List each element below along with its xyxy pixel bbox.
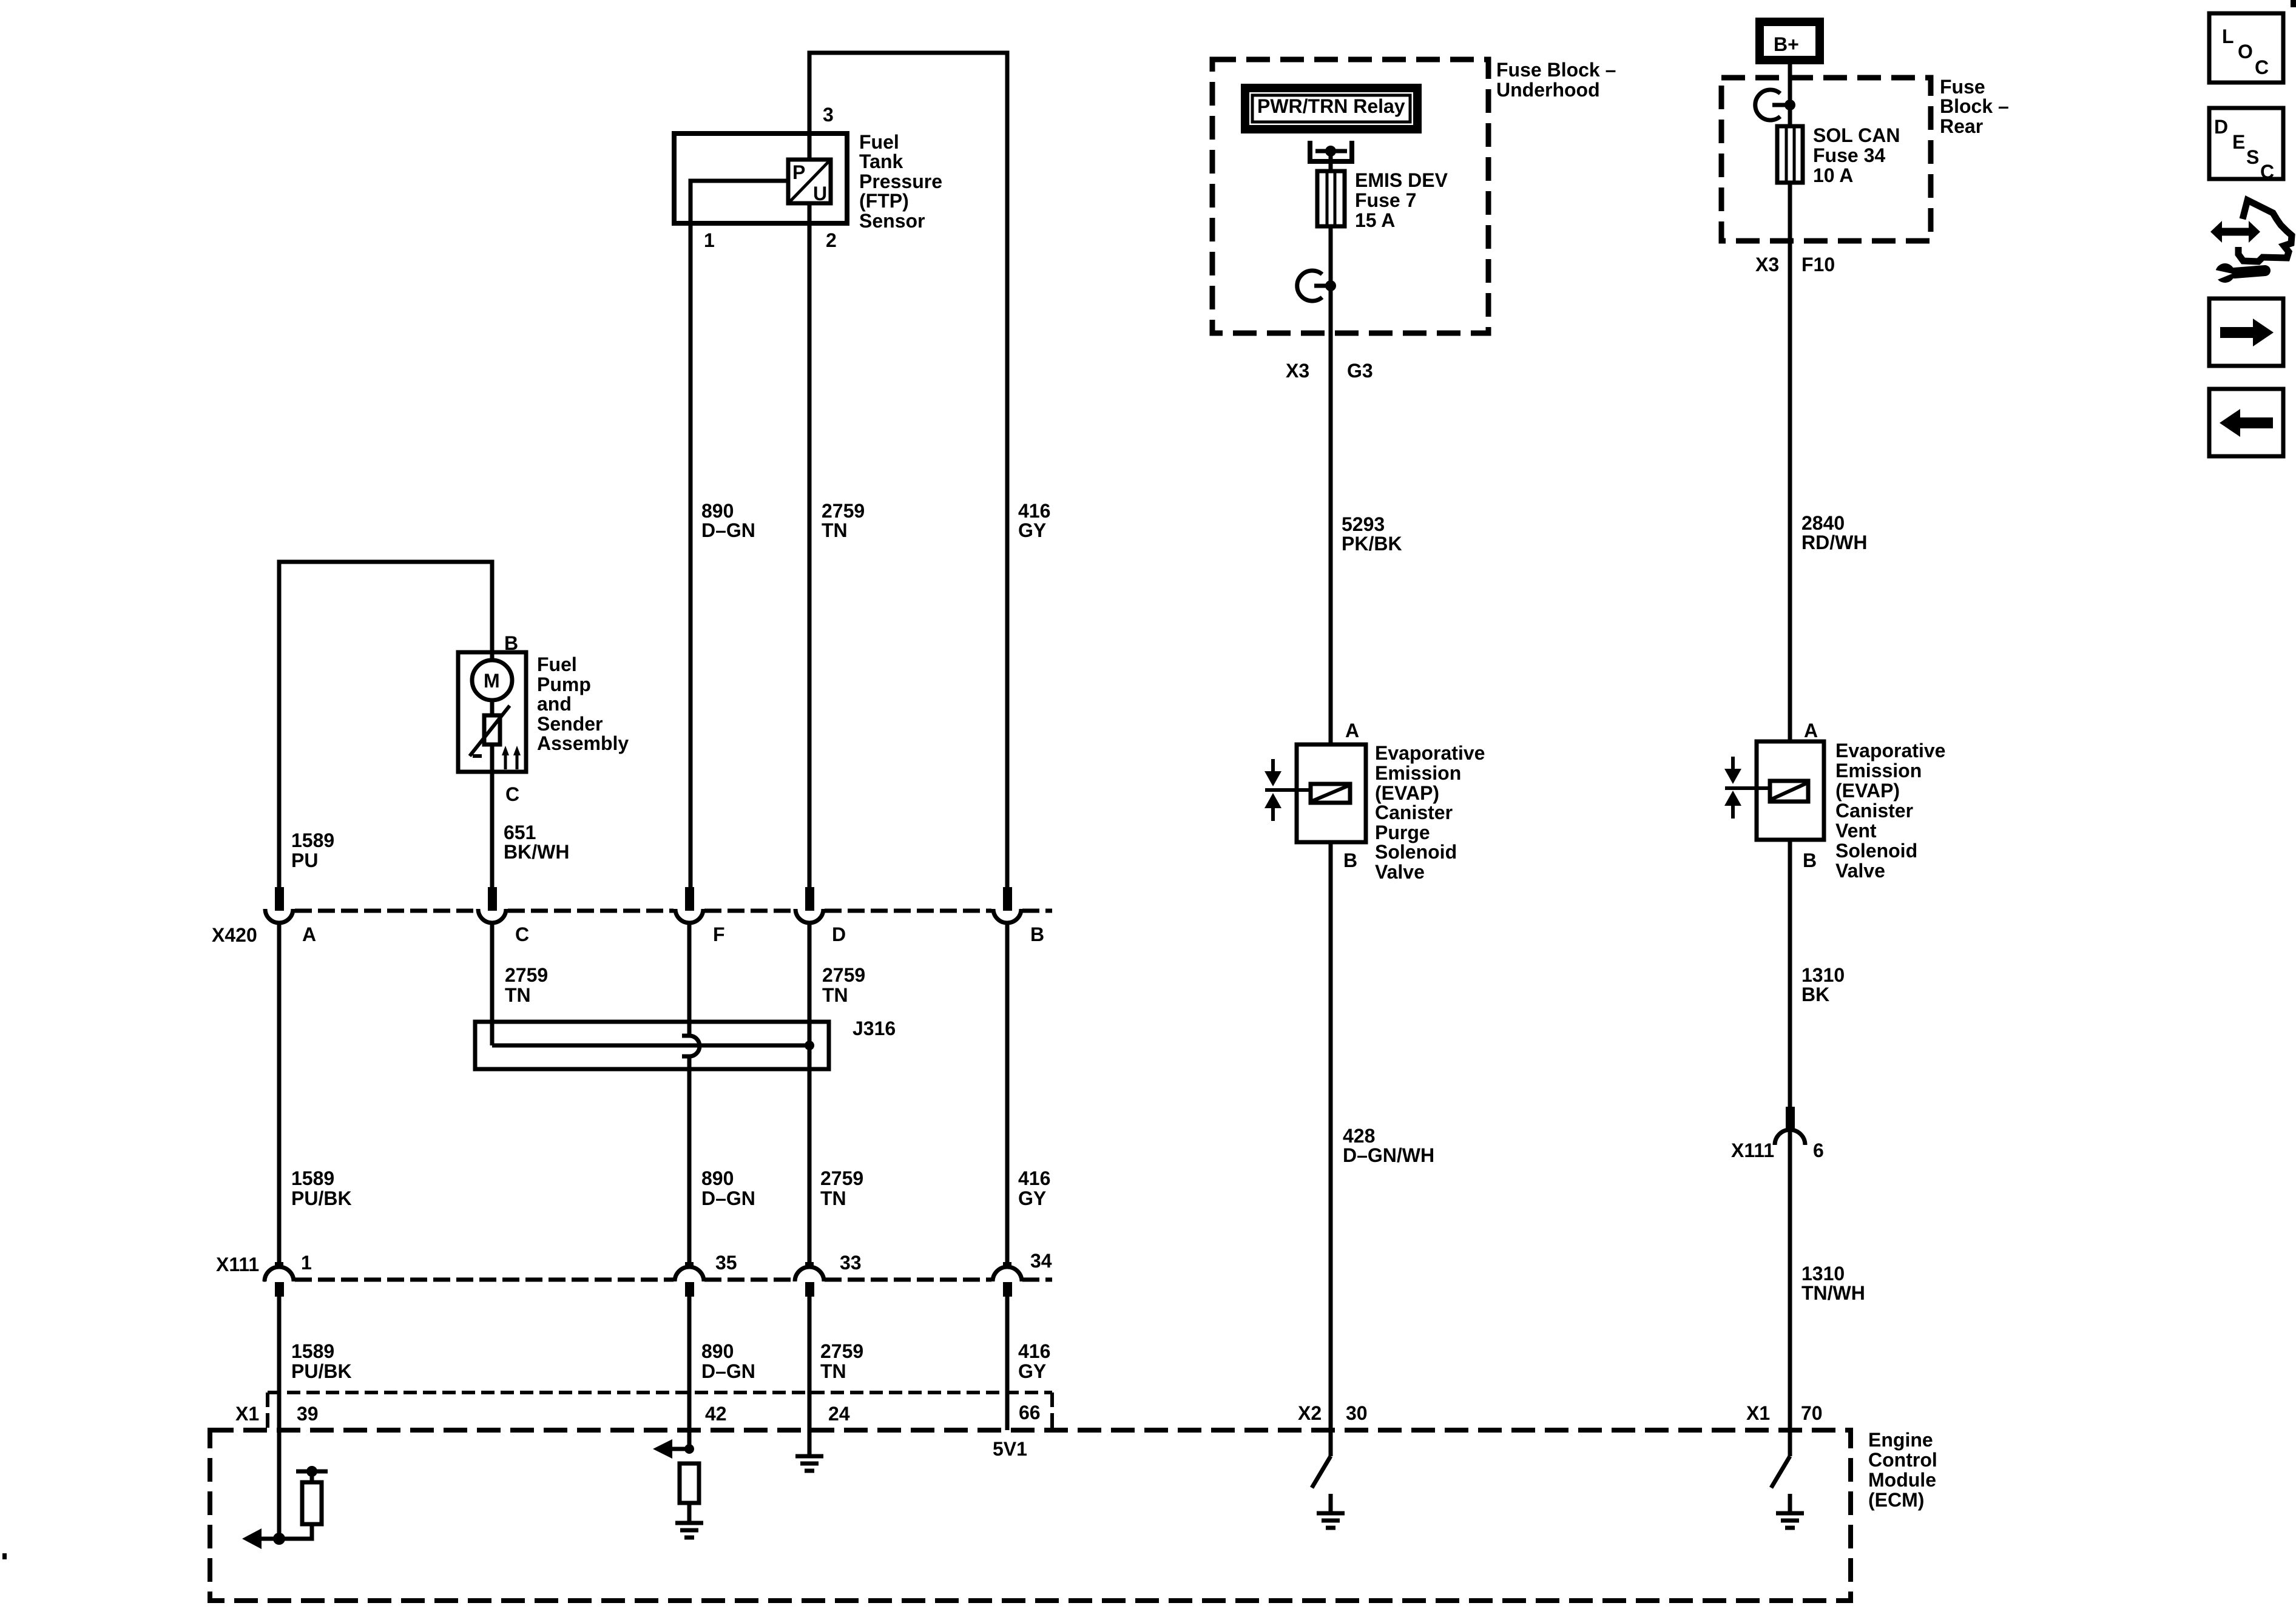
svg-text:Evaporative: Evaporative xyxy=(1835,740,1945,761)
svg-text:Fuse 34: Fuse 34 xyxy=(1813,144,1885,166)
svg-text:X2: X2 xyxy=(1298,1402,1322,1424)
svg-text:Fuel: Fuel xyxy=(859,131,899,153)
svg-text:Sender: Sender xyxy=(537,713,603,735)
svg-text:Canister: Canister xyxy=(1835,800,1913,822)
svg-text:39: 39 xyxy=(297,1403,319,1425)
svg-text:35: 35 xyxy=(715,1252,737,1274)
svg-text:1: 1 xyxy=(301,1252,312,1274)
svg-text:416: 416 xyxy=(1018,1167,1050,1189)
svg-text:Valve: Valve xyxy=(1835,860,1885,882)
svg-text:TN/WH: TN/WH xyxy=(1801,1282,1865,1304)
svg-text:RD/WH: RD/WH xyxy=(1801,532,1867,553)
svg-text:1589: 1589 xyxy=(291,1167,334,1189)
svg-text:EMIS DEV: EMIS DEV xyxy=(1355,169,1448,191)
svg-text:J316: J316 xyxy=(853,1018,896,1039)
svg-text:C: C xyxy=(2255,56,2269,78)
svg-text:BK/WH: BK/WH xyxy=(504,841,569,863)
svg-text:B: B xyxy=(504,632,518,654)
svg-text:428: 428 xyxy=(1343,1125,1375,1147)
svg-text:PK/BK: PK/BK xyxy=(1342,533,1402,555)
svg-text:C: C xyxy=(515,923,529,945)
svg-text:Engine: Engine xyxy=(1868,1429,1933,1451)
svg-text:(EVAP): (EVAP) xyxy=(1375,782,1439,804)
svg-text:2759: 2759 xyxy=(822,500,865,522)
svg-text:Solenoid: Solenoid xyxy=(1375,841,1457,863)
svg-text:Underhood: Underhood xyxy=(1496,79,1600,101)
svg-text:5V1: 5V1 xyxy=(993,1438,1027,1460)
svg-text:BK: BK xyxy=(1801,984,1829,1005)
svg-text:X3: X3 xyxy=(1286,360,1309,382)
svg-text:Emission: Emission xyxy=(1835,760,1922,781)
svg-text:GY: GY xyxy=(1018,1360,1046,1382)
svg-text:TN: TN xyxy=(505,984,531,1006)
svg-text:3: 3 xyxy=(823,104,834,126)
svg-text:X111: X111 xyxy=(216,1254,259,1275)
svg-text:Solenoid: Solenoid xyxy=(1835,840,1917,862)
svg-text:PWR/TRN Relay: PWR/TRN Relay xyxy=(1257,95,1405,117)
svg-text:D: D xyxy=(832,923,846,945)
svg-text:GY: GY xyxy=(1018,1187,1046,1209)
svg-text:416: 416 xyxy=(1018,500,1050,522)
svg-text:651: 651 xyxy=(504,822,536,843)
svg-text:D–GN: D–GN xyxy=(701,1360,755,1382)
svg-text:B: B xyxy=(1030,923,1044,945)
svg-text:Assembly: Assembly xyxy=(537,732,629,754)
svg-text:24: 24 xyxy=(828,1403,850,1425)
svg-text:Fuel: Fuel xyxy=(537,653,577,675)
svg-text:1310: 1310 xyxy=(1801,1263,1845,1284)
svg-text:X3: X3 xyxy=(1755,254,1779,275)
svg-text:1589: 1589 xyxy=(291,829,334,851)
svg-text:B: B xyxy=(1343,849,1357,871)
svg-text:X420: X420 xyxy=(212,924,257,946)
svg-text:6: 6 xyxy=(1813,1139,1824,1161)
svg-text:D–GN/WH: D–GN/WH xyxy=(1343,1144,1434,1166)
svg-text:Rear: Rear xyxy=(1940,115,1983,137)
svg-text:66: 66 xyxy=(1019,1402,1041,1423)
svg-text:D–GN: D–GN xyxy=(701,1187,755,1209)
svg-text:Tank: Tank xyxy=(859,150,903,172)
svg-text:2840: 2840 xyxy=(1801,512,1845,534)
svg-text:L: L xyxy=(2222,25,2234,47)
svg-text:2759: 2759 xyxy=(505,964,548,986)
svg-text:TN: TN xyxy=(820,1360,846,1382)
svg-text:Evaporative: Evaporative xyxy=(1375,742,1485,764)
svg-text:B+: B+ xyxy=(1774,33,1799,55)
svg-text:O: O xyxy=(2238,41,2253,62)
svg-text:A: A xyxy=(302,923,316,945)
svg-text:SOL CAN: SOL CAN xyxy=(1813,124,1900,146)
svg-text:M: M xyxy=(484,670,500,692)
svg-text:E: E xyxy=(2232,131,2245,153)
svg-text:F: F xyxy=(713,923,725,945)
svg-text:890: 890 xyxy=(701,1167,734,1189)
svg-text:Sensor: Sensor xyxy=(859,210,925,232)
svg-text:2759: 2759 xyxy=(820,1340,863,1362)
svg-text:2759: 2759 xyxy=(822,964,865,986)
svg-text:U: U xyxy=(813,183,827,204)
svg-text:A: A xyxy=(1345,720,1359,741)
svg-text:Control: Control xyxy=(1868,1449,1937,1471)
svg-text:1310: 1310 xyxy=(1801,964,1845,986)
svg-text:5293: 5293 xyxy=(1342,513,1385,535)
svg-text:2759: 2759 xyxy=(820,1167,863,1189)
svg-text:70: 70 xyxy=(1801,1402,1823,1424)
svg-text:D–GN: D–GN xyxy=(701,519,755,541)
svg-text:C: C xyxy=(2260,161,2274,183)
svg-text:Pressure: Pressure xyxy=(859,170,942,192)
svg-text:TN: TN xyxy=(822,519,848,541)
svg-text:1: 1 xyxy=(704,229,715,251)
svg-text:15 A: 15 A xyxy=(1355,209,1395,231)
svg-text:Valve: Valve xyxy=(1375,861,1425,883)
svg-text:Pump: Pump xyxy=(537,673,591,695)
svg-text:416: 416 xyxy=(1018,1340,1050,1362)
svg-text:1589: 1589 xyxy=(291,1340,334,1362)
svg-text:890: 890 xyxy=(701,1340,734,1362)
svg-text:(FTP): (FTP) xyxy=(859,190,909,212)
svg-text:10 A: 10 A xyxy=(1813,164,1853,186)
svg-text:Emission: Emission xyxy=(1375,762,1461,784)
svg-text:Fuse Block –: Fuse Block – xyxy=(1496,59,1616,81)
svg-text:Fuse: Fuse xyxy=(1940,76,1985,98)
svg-text:F10: F10 xyxy=(1801,254,1835,275)
svg-text:Canister: Canister xyxy=(1375,802,1453,823)
svg-text:X111: X111 xyxy=(1731,1139,1774,1161)
svg-text:C: C xyxy=(505,783,519,805)
svg-text:P: P xyxy=(792,161,805,183)
svg-text:D: D xyxy=(2214,116,2228,138)
svg-text:S: S xyxy=(2246,146,2259,168)
svg-text:PU: PU xyxy=(291,849,318,871)
svg-text:890: 890 xyxy=(701,500,734,522)
svg-text:B: B xyxy=(1803,849,1817,871)
svg-text:and: and xyxy=(537,693,572,715)
svg-text:TN: TN xyxy=(820,1187,846,1209)
svg-text:G3: G3 xyxy=(1347,360,1373,382)
svg-text:PU/BK: PU/BK xyxy=(291,1187,352,1209)
svg-text:(ECM): (ECM) xyxy=(1868,1489,1924,1511)
svg-text:(EVAP): (EVAP) xyxy=(1835,780,1900,802)
svg-text:A: A xyxy=(1804,720,1818,741)
svg-text:34: 34 xyxy=(1030,1250,1052,1272)
svg-text:Block –: Block – xyxy=(1940,95,2009,117)
svg-text:30: 30 xyxy=(1346,1402,1368,1424)
svg-text:X1: X1 xyxy=(235,1403,259,1425)
svg-text:42: 42 xyxy=(705,1403,727,1425)
svg-text:GY: GY xyxy=(1018,519,1046,541)
svg-text:X1: X1 xyxy=(1746,1402,1770,1424)
svg-text:Purge: Purge xyxy=(1375,822,1430,843)
svg-text:33: 33 xyxy=(840,1252,862,1274)
svg-text:TN: TN xyxy=(822,984,848,1006)
svg-text:Vent: Vent xyxy=(1835,820,1877,842)
svg-text:2: 2 xyxy=(826,229,837,251)
svg-text:PU/BK: PU/BK xyxy=(291,1360,352,1382)
svg-text:Fuse 7: Fuse 7 xyxy=(1355,189,1416,211)
svg-text:Module: Module xyxy=(1868,1469,1936,1491)
